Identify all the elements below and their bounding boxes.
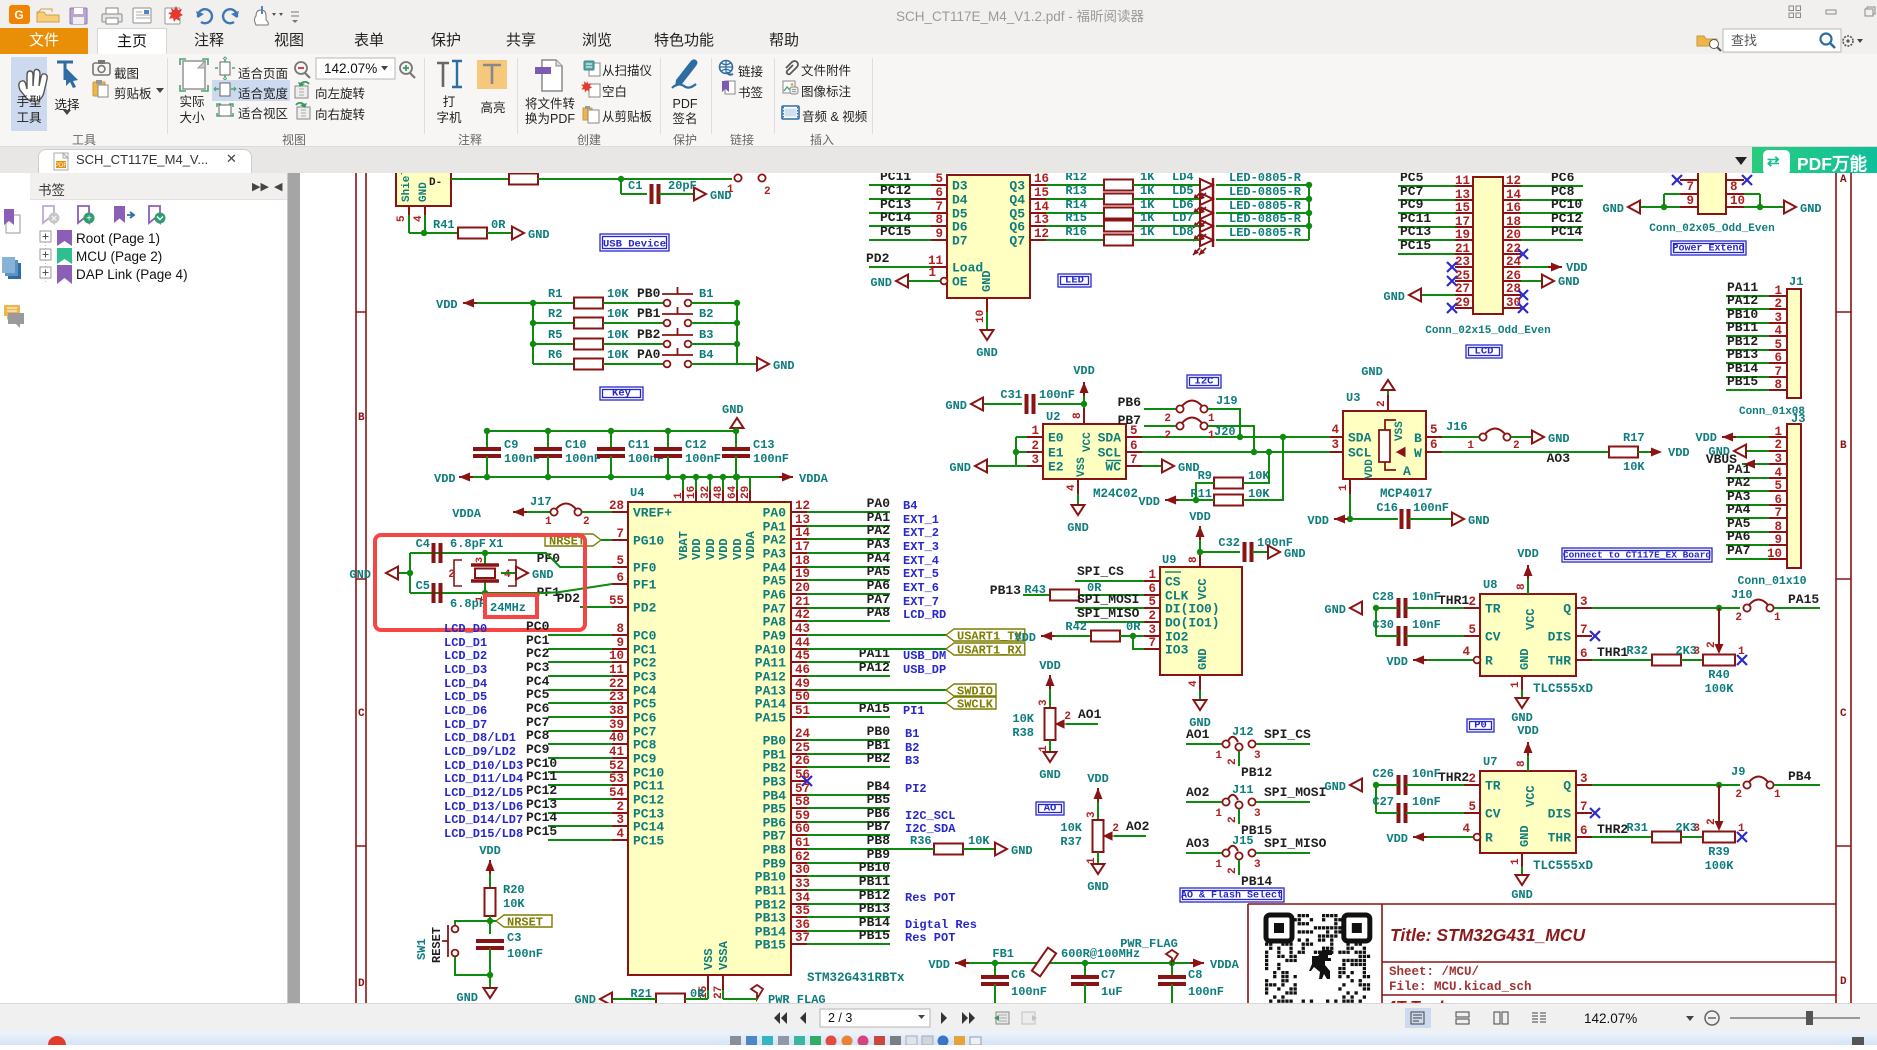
svg-text:1: 1 [1215,808,1222,820]
svg-text:C: C [358,708,365,720]
MCU pin 23 PC5 [612,702,628,704]
wire to ground [489,975,491,988]
pin 5 DI(IO0) [1144,607,1160,609]
svg-text:PA12: PA12 [859,660,890,675]
svg-text:R39: R39 [1708,845,1730,859]
svg-text:10nF: 10nF [1412,590,1441,604]
svg-text:6: 6 [616,571,624,585]
svg-text:44: 44 [795,636,811,650]
wire cap bottom bus [472,476,753,478]
svg-text:10: 10 [1767,547,1782,561]
svg-text:6: 6 [1774,351,1782,365]
pin 6 SCL [1126,451,1142,453]
svg-text:A: A [1403,464,1411,479]
svg-text:VDD: VDD [1138,495,1160,509]
capacitor C10 [547,431,549,449]
zoom in [400,62,412,74]
MCU pin 52 PC10 [612,771,628,773]
svg-text:D-: D- [429,177,442,189]
svg-text:10K: 10K [607,287,629,301]
sheet label AO & Flash Select [1180,888,1284,902]
svg-text:GND: GND [945,399,967,413]
svg-text:C: C [1840,708,1847,720]
svg-text:2: 2 [1376,400,1388,407]
capacitor C7 [1084,963,1086,977]
pin 28 NC [1503,294,1521,296]
capacitor C8 [1171,963,1173,977]
pin 3 VBUS [1769,463,1787,465]
svg-text:10K: 10K [1248,487,1270,501]
MCU pin 58 PB5 [791,807,807,809]
svg-text:13: 13 [795,513,810,527]
svg-text:10: 10 [609,649,624,663]
junction [618,176,624,182]
MCU pin 43 PA9 [791,634,807,636]
svg-text:GND: GND [456,991,478,1003]
svg-text:1: 1 [545,516,552,528]
svg-text:C9: C9 [504,438,518,452]
pin 18 PC12 [1503,226,1521,228]
svg-text:J17: J17 [530,495,552,509]
svg-text:AO1: AO1 [1186,727,1210,742]
dropdown caret [1735,157,1747,171]
svg-text:4: 4 [1331,423,1339,437]
svg-text:1: 1 [1774,284,1782,298]
ground [1532,431,1544,444]
svg-text:9: 9 [1686,194,1694,208]
wire W to R17 [1442,451,1609,453]
svg-text:LD4: LD4 [1172,173,1194,184]
pin 13 PC7 [1455,199,1473,201]
pin 20 PC14 [1503,239,1521,241]
wire to bus [1216,198,1309,200]
pin 2 TR [1464,607,1480,609]
pin 16 Q3 [1030,184,1046,186]
wire R32 to R40 [1681,659,1703,661]
from clipboard [583,106,599,123]
svg-text:9: 9 [1774,533,1782,547]
junction [992,960,998,966]
svg-text:USART1_TX: USART1_TX [957,630,1023,644]
svg-text:SCL: SCL [1348,446,1372,461]
svg-text:Power Extend: Power Extend [1672,243,1744,255]
wire E bus [1016,436,1027,438]
svg-text:D7: D7 [952,234,968,249]
svg-text:B4: B4 [903,499,917,513]
svg-text:PC3: PC3 [526,660,550,675]
sheet frame left border [356,173,366,1003]
svg-text:24: 24 [795,727,811,741]
switch B4 [664,361,671,368]
from scanner [584,61,600,76]
svg-text:U3: U3 [1346,391,1360,405]
hand tool selected [11,57,47,131]
svg-text:CV: CV [1485,807,1501,822]
ground left [1628,201,1640,214]
svg-text:PC8: PC8 [633,738,657,753]
svg-text:PC15: PC15 [880,224,911,239]
svg-text:Conn_01x10: Conn_01x10 [1737,575,1806,588]
ground [1376,607,1398,609]
svg-text:16: 16 [686,486,698,499]
svg-text:GND: GND [528,228,550,242]
connector USB shield box (partial) [396,168,451,206]
MCU pin 53 PC11 [612,784,628,786]
MCU pin 50 PA14 [791,702,807,704]
MCU pin 17 PA3 [791,552,807,554]
ground [971,398,983,411]
svg-text:M24C02: M24C02 [1093,487,1138,501]
global label USART1_RX [946,643,1025,655]
svg-text:Q: Q [1563,602,1571,617]
svg-text:PC15: PC15 [633,834,664,849]
wire [621,178,732,180]
pin 7 DIS [1576,635,1592,637]
svg-text:7: 7 [1686,180,1694,194]
svg-text:7: 7 [935,200,943,214]
wire USART1_TX [807,634,946,636]
svg-text:VSS: VSS [1076,457,1088,477]
capacitor C31 [1038,403,1084,405]
svg-text:20pF: 20pF [668,179,697,193]
svg-text:PA14: PA14 [755,697,786,712]
svg-text:PB14: PB14 [1241,874,1272,889]
svg-text:142.07%: 142.07% [1584,1011,1637,1026]
ground left [386,567,398,580]
svg-text:0R: 0R [491,218,506,232]
svg-text:PD2: PD2 [866,251,890,266]
MCU pin 24 PB0 [791,739,807,741]
wire J20 to SCL [1208,426,1254,452]
svg-text:10K: 10K [1248,469,1270,483]
pin 3 SCL [1330,451,1343,453]
svg-text:3: 3 [1580,595,1588,609]
select [57,62,73,80]
svg-text:R37: R37 [1060,835,1082,849]
svg-text:17: 17 [795,540,810,554]
wire row R2 [533,322,574,324]
wire SDA net [1142,436,1330,438]
capacitor C CV [1399,803,1406,823]
svg-text:Conn_02x15_Odd_Even: Conn_02x15_Odd_Even [1425,325,1550,337]
svg-text:LCD_D11/LD4: LCD_D11/LD4 [444,772,523,786]
ground [1516,698,1529,708]
MCU pin 19 PA5 [791,579,807,581]
svg-text:THR1: THR1 [1597,645,1628,660]
svg-text:PA11: PA11 [755,656,786,671]
svg-text:Title: STM32G431_MCU: Title: STM32G431_MCU [1390,925,1586,945]
svg-text:AO & Flash Select: AO & Flash Select [1181,890,1283,902]
pin 9 [1680,206,1698,208]
pin 26 GND [1503,280,1521,282]
pin 1 PA11 [1769,295,1787,297]
power VDD [1094,788,1103,799]
svg-text:W: W [1414,446,1422,461]
svg-text:GND: GND [1800,202,1822,216]
junction [1169,960,1175,966]
svg-text:1: 1 [1215,859,1222,871]
svg-text:VDD: VDD [1073,364,1095,378]
MCU pin 41 PC9 [612,757,628,759]
svg-text:THR: THR [1548,831,1572,846]
svg-text:LD7: LD7 [1172,211,1194,225]
svg-text:1K: 1K [1140,198,1155,212]
wire to SPI_MISO [1256,852,1310,854]
capacitor C32 [1200,551,1240,553]
wire to C3 and SW1 [489,921,491,934]
svg-text:46: 46 [795,663,810,677]
pin 2 E1 [1027,451,1043,453]
pin 7 DIS [1576,812,1592,814]
wire to bus [1216,212,1309,214]
global label SWCLK [946,697,996,709]
svg-text:THR2: THR2 [1597,822,1628,837]
pin 8 VCC [1527,579,1529,594]
pin 3 PB10 [1769,322,1787,324]
zoom out [295,62,307,74]
svg-text:A: A [1840,174,1847,186]
pin 19 PC13 [1455,239,1473,241]
svg-text:VCC: VCC [1082,432,1094,452]
pin 4 VSS [1077,479,1079,494]
svg-text:P0: P0 [1474,720,1487,732]
svg-text:VDD: VDD [1668,446,1690,460]
MCU pin 42 PA8 [791,620,807,622]
junction [1306,196,1312,202]
svg-text:NRSET: NRSET [507,916,543,930]
svg-text:41: 41 [609,745,624,759]
document tab [38,149,252,173]
ground [1268,546,1280,559]
pin 8 PB15 [1769,389,1787,391]
junction [734,320,740,326]
svg-text:GND: GND [1383,290,1405,304]
svg-text:WC: WC [1105,460,1121,475]
wire R6 to switch [603,363,663,365]
svg-text:55: 55 [609,594,624,608]
svg-text:7: 7 [1580,800,1588,814]
svg-text:3: 3 [1038,699,1050,706]
MCU pin 57 PB4 [791,794,807,796]
svg-text:PB10: PB10 [755,870,786,885]
pin 10 GND [986,298,988,312]
svg-text:Q4: Q4 [1009,193,1025,208]
pin 14 Q5 [1030,212,1046,214]
wire THR to R32 [1592,659,1652,661]
svg-text:B2: B2 [905,741,919,755]
svg-text:64: 64 [727,485,739,499]
pin 1 E0 [1027,436,1043,438]
svg-text:13: 13 [1034,213,1049,227]
MCU pin 13 PA1 [791,525,807,527]
svg-text:STM32G431RBTx: STM32G431RBTx [807,971,905,985]
wire R16 to LD8 [1133,239,1200,241]
svg-text:53: 53 [609,772,624,786]
pdf sign pen [672,59,698,88]
svg-text:10nF: 10nF [1412,618,1441,632]
svg-text:LED: LED [1065,275,1084,287]
svg-text:6: 6 [1430,438,1438,452]
svg-text:32: 32 [700,486,712,499]
svg-text:PF1: PF1 [633,578,657,593]
svg-text:42: 42 [795,608,810,622]
zoom combo [316,58,395,79]
svg-text:PB1: PB1 [637,306,661,321]
svg-text:100nF: 100nF [753,452,789,466]
svg-text:AO2: AO2 [1186,785,1210,800]
svg-text:PC10: PC10 [1551,197,1582,212]
svg-text:2: 2 [1112,823,1119,835]
svg-text:J9: J9 [1731,765,1745,779]
pin 7 WC [1126,465,1142,467]
svg-text:21: 21 [795,595,810,609]
svg-text:LCD_D1: LCD_D1 [444,636,487,650]
svg-text:9: 9 [935,227,943,241]
svg-text:PC2: PC2 [633,656,657,671]
svg-text:MCP4017: MCP4017 [1380,487,1433,501]
pin 2 TR [1464,784,1480,786]
svg-text:EXT_6: EXT_6 [903,581,939,595]
pin 3 Q [1576,784,1592,786]
svg-text:8: 8 [1516,760,1528,767]
svg-text:1: 1 [1031,424,1039,438]
svg-text:3: 3 [1254,750,1261,762]
svg-text:VSS: VSS [1394,421,1406,441]
svg-text:2: 2 [1513,440,1520,452]
global label NRSET [545,534,601,546]
svg-text:8: 8 [1774,378,1782,392]
svg-text:3: 3 [1774,452,1782,466]
svg-text:PB7: PB7 [867,819,890,834]
svg-text:1: 1 [1467,440,1474,452]
wire to R16 [1046,239,1104,241]
svg-text:100nF: 100nF [1188,985,1224,999]
pin 10 PA7 [1769,558,1787,560]
wire R17 to VDD [1638,451,1650,453]
svg-text:VDD: VDD [690,538,704,560]
MCU pin 39 PC7 [612,730,628,732]
svg-text:6: 6 [1580,647,1588,661]
svg-text:E1: E1 [1048,446,1064,461]
svg-text:SW1: SW1 [415,938,429,960]
svg-text:GND: GND [1518,648,1532,670]
pin 8 PA5 [1769,531,1787,533]
svg-text:PG10: PG10 [633,534,664,549]
svg-text:AO: AO [1044,803,1057,815]
svg-text:25: 25 [795,741,810,755]
svg-text:EXT_4: EXT_4 [903,554,939,568]
pin 6 PA3 [1769,504,1787,506]
typewriter TI [437,63,449,87]
svg-text:PC13: PC13 [1400,224,1431,239]
pin 5 SDA [1126,436,1142,438]
svg-text:PI1: PI1 [903,704,925,718]
MCU pin 49 PA13 [791,689,807,691]
wire to PB12 [1238,751,1240,766]
svg-text:PB7: PB7 [763,829,786,844]
svg-text:GND: GND [532,568,554,582]
MCU U4 body [628,502,791,975]
svg-text:PB6: PB6 [1118,395,1142,410]
svg-text:11: 11 [1455,174,1470,188]
svg-text:R2: R2 [548,307,562,321]
potentiometer R38 [1049,689,1051,708]
svg-text:10K: 10K [1012,712,1034,726]
ground [975,460,987,473]
pin 5 PA2 [1769,490,1787,492]
svg-text:GND: GND [773,359,795,373]
svg-text:B3: B3 [699,328,713,342]
svg-text:100nF: 100nF [565,452,601,466]
MCU pin 5 PF0 [612,566,628,568]
svg-text:Connect to CT117E_EX Board: Connect to CT117E_EX Board [1563,550,1712,561]
VDD C16 row [1349,494,1351,519]
svg-text:SCL: SCL [1098,446,1122,461]
pins NC top [1680,179,1744,181]
svg-text:C6: C6 [1011,968,1025,982]
wire crystal left vertical [409,553,411,593]
pin 2 VSS [1387,395,1389,411]
svg-text:10K: 10K [968,834,990,848]
pin 64 VDD [736,477,738,494]
svg-text:5: 5 [1148,595,1156,609]
svg-text:VDD: VDD [1517,547,1539,561]
sheet label Key [600,387,643,400]
svg-text:R6: R6 [548,348,562,362]
svg-text:C7: C7 [1101,968,1115,982]
svg-text:VDD: VDD [1039,659,1061,673]
svg-text:DO(IO1): DO(IO1) [1165,616,1220,631]
MCU pin 28 VREF+ [612,511,628,513]
MCU pin 7 PG10 [612,539,628,541]
MCU pin 26 PB2 [791,766,807,768]
svg-text:VREF+: VREF+ [633,506,672,521]
pin 6 CLK [1144,594,1160,596]
svg-text:VDDA: VDDA [799,472,829,486]
svg-text:VDD: VDD [1517,724,1539,738]
wire Q to J10 [1592,607,1740,609]
svg-text:2: 2 [1774,438,1782,452]
svg-text:C13: C13 [753,438,775,452]
svg-text:2: 2 [1064,711,1071,723]
power VDD [1196,526,1205,537]
pin 6 THR [1576,659,1592,661]
svg-text:LCD_D13/LD6: LCD_D13/LD6 [444,800,523,814]
wire top D- net (partial) [451,178,509,180]
svg-text:59: 59 [795,809,810,823]
tree [30,225,287,345]
svg-text:PC2: PC2 [526,646,550,661]
svg-text:TR: TR [1485,602,1501,617]
svg-text:SPI_MISO: SPI_MISO [1264,836,1327,851]
svg-text:✕: ✕ [50,214,58,224]
svg-text:8: 8 [1730,180,1738,194]
pin 8 [1726,193,1744,195]
pin 5 [408,206,410,215]
svg-text:PWR FLAG: PWR FLAG [768,993,826,1003]
pin 4 R [1474,834,1481,841]
junction [734,341,740,347]
svg-text:PA6: PA6 [867,578,891,593]
highlight 24MHz box [485,595,537,617]
svg-text:E0: E0 [1048,431,1064,446]
svg-text:PC15: PC15 [526,824,557,839]
MCU pin 46 PA12 [791,675,807,677]
svg-text:GND: GND [1324,603,1346,617]
svg-text:PA2: PA2 [763,533,787,548]
svg-text:J11: J11 [1232,783,1254,797]
junction [530,341,536,347]
